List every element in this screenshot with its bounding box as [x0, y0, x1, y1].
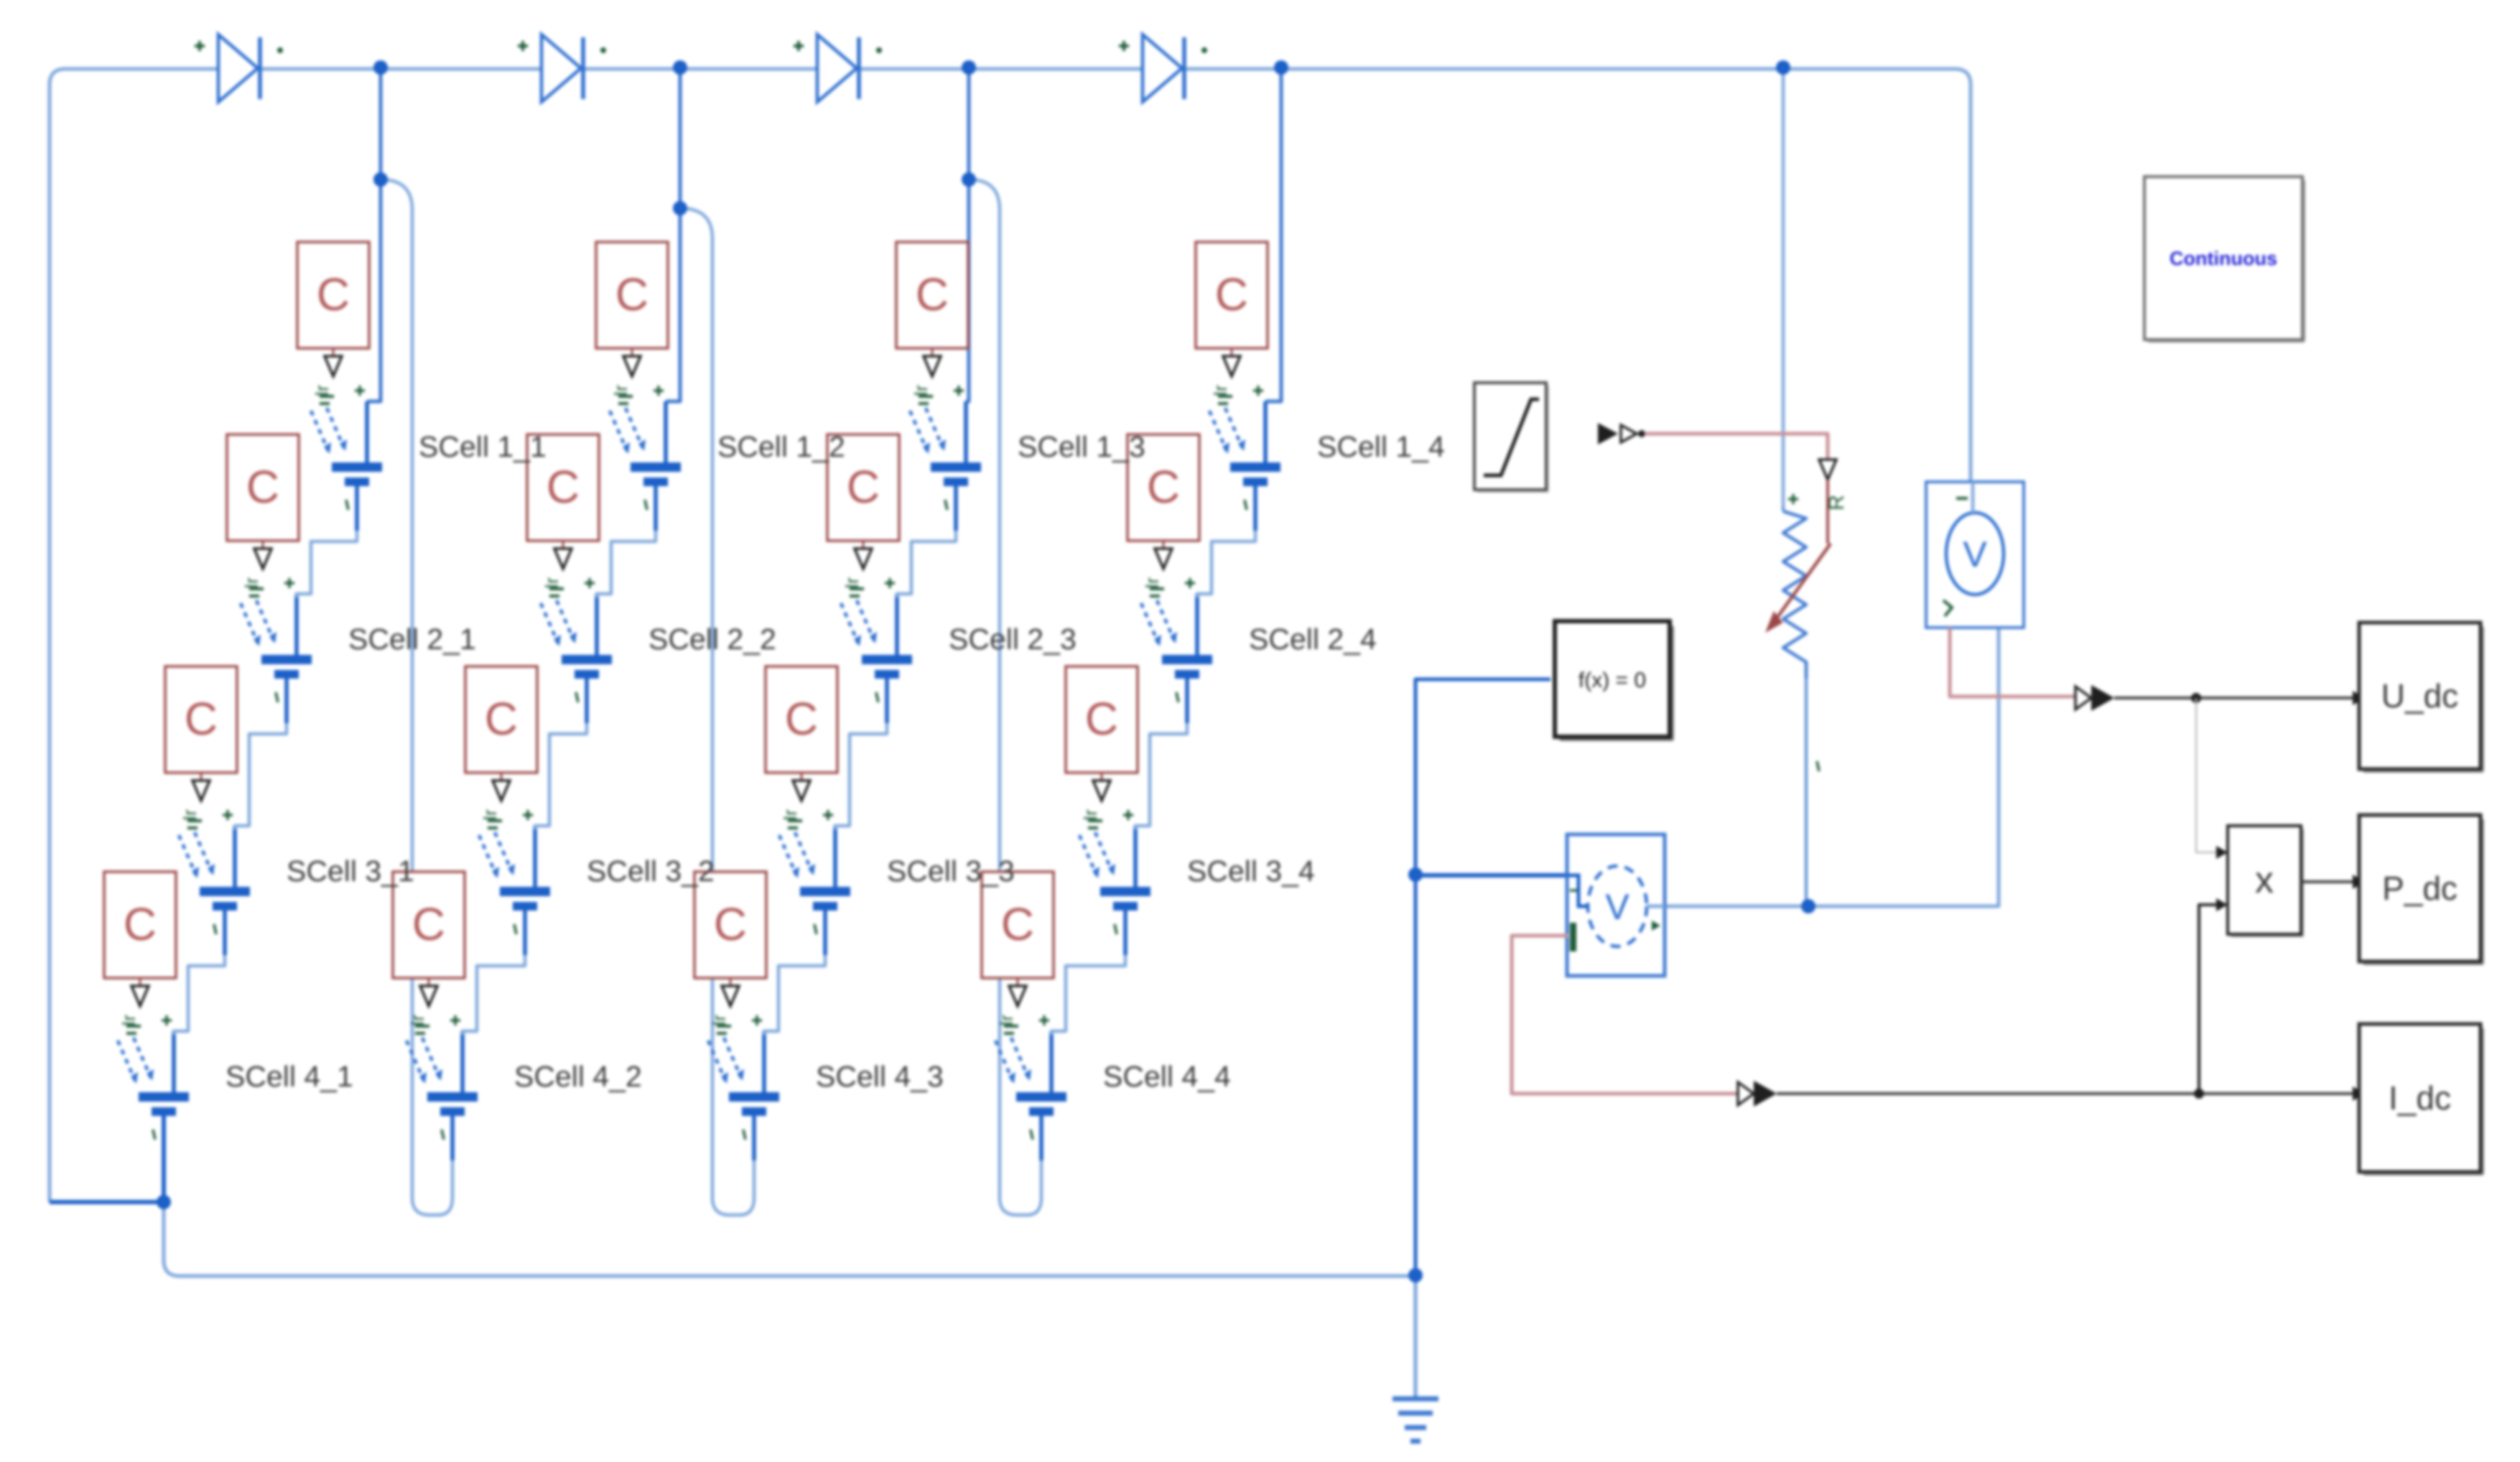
diode D4 - polarity mark — [1201, 47, 1207, 53]
svg-text:C: C — [714, 898, 747, 950]
svg-text:Ir: Ir — [708, 1015, 730, 1026]
positive terminal mark of SCell 3_4 — [1123, 810, 1133, 820]
wire current sensor I output to I_dc port glyph — [1512, 936, 1738, 1094]
negative terminal mark of SCell 4_2 — [442, 1130, 444, 1140]
diode D4 bypass — [1143, 34, 1184, 102]
node J2 — [673, 60, 687, 75]
node J4 — [1274, 60, 1288, 75]
node J1 lower — [373, 172, 388, 187]
wire junction J2 drop to SCell 1_2 positive terminal — [666, 208, 680, 401]
constant block C for SCell 1_1 — [297, 242, 369, 348]
svg-text:C: C — [785, 693, 818, 745]
solar cell symbol SCell 1_2 — [610, 401, 681, 531]
solar cell symbol SCell 2_4 — [1141, 594, 1212, 723]
arrowhead into U_dc — [2353, 691, 2365, 705]
solar cell symbol SCell 4_3 — [708, 1031, 779, 1160]
arrowhead into I_dc — [2353, 1086, 2365, 1101]
irradiance port Ir of SCell 1_2 — [610, 385, 633, 404]
svg-text:C: C — [1215, 269, 1248, 320]
positive terminal mark of SCell 1_1 — [355, 386, 365, 396]
negative terminal mark of SCell 2_2 — [576, 692, 578, 702]
irradiance port Ir of SCell 1_4 — [1209, 385, 1232, 404]
positive terminal mark of SCell 1_4 — [1253, 386, 1263, 396]
negative terminal mark of SCell 4_3 — [743, 1130, 745, 1140]
signal wire to U_dc outport — [2114, 697, 2353, 699]
svg-text:SCell 2_1: SCell 2_1 — [348, 623, 476, 656]
solar cell symbol SCell 3_2 — [479, 826, 550, 955]
svg-text:R: R — [1825, 495, 1849, 511]
svg-text:SCell 3_1: SCell 3_1 — [287, 855, 414, 888]
PS converter arrow below C block of SCell 4_4 — [1009, 978, 1026, 1006]
node J3 lower — [962, 172, 976, 187]
negative terminal mark of SCell 3_2 — [514, 924, 516, 934]
constant block C for SCell 4_1 — [104, 872, 176, 978]
svg-text:C: C — [1001, 898, 1034, 950]
wire junction J3 vertical stub — [967, 67, 971, 180]
wire variable resistor bottom lead — [1782, 503, 1785, 511]
wire column1 riser lower part and bottom return bus — [164, 1202, 1415, 1276]
svg-text:x: x — [2255, 860, 2274, 901]
wire junction J3 drop to SCell 1_3 positive terminal — [966, 180, 969, 401]
PS converter arrow below C block of SCell 1_2 — [623, 348, 641, 376]
PS converter arrow below C block of SCell 4_1 — [131, 978, 149, 1006]
diode D3 bypass — [817, 34, 859, 102]
negative terminal mark of SCell 3_1 — [214, 924, 216, 934]
svg-text:Ir: Ir — [241, 577, 262, 589]
svg-text:Ir: Ir — [179, 809, 200, 821]
negative terminal mark of SCell 1_1 — [346, 500, 348, 510]
wire junction J2 vertical stub — [679, 67, 682, 208]
wire saturation output to variable resistor control port — [1645, 434, 1828, 458]
wire SCell 2_2 negative to SCell 3_2 positive — [535, 723, 587, 829]
node ground branch — [1408, 1268, 1423, 1282]
variable resistor R zigzag — [1783, 511, 1806, 679]
wire SCell 3_4 negative to SCell 4_4 positive — [1051, 955, 1125, 1035]
solar cell symbol SCell 3_1 — [179, 826, 250, 955]
constant block C for SCell 2_3 — [827, 434, 899, 541]
negative terminal mark of SCell 3_3 — [814, 924, 817, 934]
irradiance port Ir of SCell 3_2 — [479, 809, 502, 828]
svg-text:SCell 4_1: SCell 4_1 — [226, 1060, 353, 1093]
wire SCell 1_1 negative to SCell 2_1 positive — [297, 531, 357, 597]
irradiance port Ir of SCell 2_4 — [1141, 577, 1164, 596]
signal tap from I_dc wire up to product input 2 — [2199, 905, 2216, 1094]
svg-text:V: V — [1605, 887, 1629, 927]
negative terminal mark of SCell 2_3 — [876, 692, 878, 702]
algebraic constraint block f(x)=0 — [1555, 621, 1674, 741]
constant block C for SCell 3_1 — [165, 666, 237, 773]
wire control arrow to resistor wiper — [1826, 480, 1829, 544]
wire junction J4 vertical stub — [1280, 67, 1283, 180]
svg-text:Ir: Ir — [910, 385, 931, 396]
wire SCell 3_2 negative to SCell 4_2 positive — [462, 955, 525, 1035]
irradiance port Ir of SCell 4_1 — [118, 1015, 141, 1033]
svg-text:SCell 3_4: SCell 3_4 — [1187, 855, 1315, 888]
negative terminal mark of SCell 2_4 — [1176, 692, 1178, 702]
constant block C for SCell 3_3 — [766, 666, 837, 773]
solar cell symbol SCell 2_2 — [541, 594, 612, 723]
irradiance port Ir of SCell 2_1 — [241, 577, 264, 596]
wire junction J1 vertical stub — [379, 67, 383, 180]
svg-text:C: C — [547, 461, 580, 513]
svg-text:C: C — [1085, 693, 1118, 745]
signal tap from U_dc wire down to product input 1 — [2196, 698, 2216, 852]
positive terminal mark of SCell 2_1 — [284, 578, 294, 588]
wire R bottom lead to measure bus — [1805, 666, 1808, 904]
irradiance port Ir of SCell 4_4 — [995, 1015, 1018, 1033]
positive terminal mark of SCell 4_3 — [752, 1015, 762, 1025]
PS arrow into variable resistor control — [1819, 460, 1836, 480]
positive terminal mark of SCell 3_1 — [223, 810, 233, 820]
solar cell symbol SCell 4_4 — [995, 1031, 1066, 1160]
node J5 to load branch — [1776, 60, 1790, 75]
solar cell symbol SCell 4_2 — [406, 1031, 478, 1160]
diode D2 + polarity mark — [518, 41, 528, 51]
svg-text:Ir: Ir — [1209, 385, 1231, 396]
current measurement block I — [1567, 834, 1665, 976]
solar cell symbol SCell 2_3 — [841, 594, 912, 723]
svg-text:Ir: Ir — [311, 385, 333, 396]
constant block C for SCell 4_4 — [982, 872, 1054, 978]
wire SCell 2_4 negative to SCell 3_4 positive — [1135, 723, 1187, 829]
irradiance port Ir of SCell 2_3 — [841, 577, 864, 596]
wire top bus from top-left corner to top-right corner — [50, 69, 1971, 1202]
PS converter arrow below C block of SCell 3_1 — [192, 773, 210, 801]
wire junction J1 drop to SCell 1_1 positive terminal — [367, 180, 381, 401]
PS converter arrow below C block of SCell 2_1 — [254, 541, 271, 569]
PS converter arrow below C block of SCell 1_4 — [1223, 348, 1240, 376]
PS converter arrow below C block of SCell 3_4 — [1093, 773, 1110, 801]
node on I_dc wire — [2194, 1089, 2204, 1099]
svg-text:SCell 4_4: SCell 4_4 — [1103, 1060, 1231, 1093]
svg-text:Ir: Ir — [118, 1015, 139, 1026]
negative terminal mark of SCell 1_4 — [1245, 500, 1247, 510]
wire bypass bus from J2 down to SCell 4_3 negative terminal — [680, 208, 754, 1215]
svg-text:SCell 4_3: SCell 4_3 — [816, 1060, 944, 1093]
powergui Continuous block — [2144, 177, 2305, 343]
positive terminal mark of SCell 2_3 — [885, 578, 895, 588]
irradiance port Ir of SCell 1_1 — [311, 385, 334, 404]
svg-text:P_dc: P_dc — [2382, 870, 2458, 907]
wire column1 bottom riser — [162, 1113, 166, 1206]
output port glyph of saturation block — [1598, 423, 1645, 444]
svg-text:C: C — [485, 693, 518, 745]
PS converter arrow below C block of SCell 1_1 — [325, 348, 342, 376]
positive terminal mark of SCell 4_2 — [450, 1015, 460, 1025]
diode D2 bypass — [541, 34, 583, 102]
wire junction J4 drop to SCell 1_4 positive terminal — [1265, 180, 1281, 401]
positive terminal mark of SCell 2_2 — [585, 578, 595, 588]
svg-text:I_dc: I_dc — [2389, 1079, 2451, 1117]
wire SCell 1_4 negative to SCell 2_4 positive — [1197, 531, 1255, 597]
solar cell symbol SCell 1_3 — [910, 401, 981, 531]
irradiance port Ir of SCell 4_3 — [708, 1015, 731, 1033]
svg-text:C: C — [916, 269, 949, 320]
positive terminal mark of SCell 4_4 — [1039, 1015, 1049, 1025]
diode D1 bypass — [218, 34, 260, 102]
variable resistor + mark — [1788, 494, 1798, 504]
wire SCell 2_1 negative to SCell 3_1 positive — [235, 723, 287, 829]
solar cell symbol SCell 2_1 — [241, 594, 312, 723]
PS converter arrow below C block of SCell 2_2 — [554, 541, 572, 569]
svg-text:C: C — [847, 461, 880, 513]
wire current sensor output to R bottom node and voltage sensor return — [1662, 595, 1999, 906]
irradiance port Ir of SCell 1_3 — [910, 385, 933, 404]
PS converter arrow below C block of SCell 1_3 — [924, 348, 941, 376]
svg-text:SCell 2_3: SCell 2_3 — [949, 623, 1077, 656]
saturation block — [1474, 383, 1549, 493]
svg-text:SCell 4_2: SCell 4_2 — [514, 1060, 642, 1093]
svg-text:U_dc: U_dc — [2381, 677, 2458, 714]
wire SCell 2_3 negative to SCell 3_3 positive — [835, 723, 887, 829]
positive terminal mark of SCell 3_3 — [823, 810, 833, 820]
diode D1 - polarity mark — [277, 47, 283, 53]
svg-text:SCell 1_4: SCell 1_4 — [1317, 430, 1445, 463]
svg-text:SCell 2_2: SCell 2_2 — [648, 623, 776, 656]
svg-text:SCell 1_3: SCell 1_3 — [1018, 430, 1145, 463]
irradiance port Ir of SCell 2_2 — [541, 577, 564, 596]
svg-text:Ir: Ir — [1079, 809, 1101, 821]
wire bypass bus from J1 down to SCell 4_2 negative terminal — [381, 180, 452, 1215]
constant block C for SCell 3_2 — [465, 666, 537, 773]
outport block U_dc — [2359, 623, 2484, 773]
svg-text:f(x) = 0: f(x) = 0 — [1579, 669, 1646, 692]
positive terminal mark of SCell 3_2 — [523, 810, 533, 820]
svg-text:C: C — [412, 898, 445, 950]
node J3 — [962, 60, 976, 75]
solar cell symbol SCell 3_4 — [1079, 826, 1150, 955]
constant block C for SCell 4_2 — [393, 872, 465, 978]
PS converter arrow below C block of SCell 4_2 — [420, 978, 437, 1006]
svg-text:Ir: Ir — [841, 577, 863, 589]
svg-text:Ir: Ir — [610, 385, 631, 396]
svg-text:C: C — [246, 461, 279, 513]
wire product output to P_dc — [2301, 880, 2353, 883]
svg-text:V: V — [1963, 534, 1987, 574]
negative terminal mark of SCell 4_1 — [153, 1130, 155, 1140]
positive terminal mark of SCell 2_4 — [1185, 578, 1195, 588]
negative terminal mark of SCell 2_1 — [276, 692, 278, 702]
signal port glyph to U_dc — [2075, 685, 2114, 711]
constant block C for SCell 1_4 — [1196, 242, 1268, 348]
svg-text:Continuous: Continuous — [2170, 248, 2277, 269]
svg-text:Ir: Ir — [479, 809, 501, 821]
outport block I_dc — [2359, 1024, 2484, 1175]
negative terminal mark of SCell 1_2 — [645, 500, 647, 510]
svg-text:SCell 3_3: SCell 3_3 — [887, 855, 1015, 888]
diode D3 + polarity mark — [794, 41, 804, 51]
svg-text:SCell 1_2: SCell 1_2 — [717, 430, 845, 463]
positive terminal mark of SCell 1_2 — [654, 386, 664, 396]
svg-text:C: C — [124, 898, 157, 950]
node R bottom on measure bus — [1801, 899, 1815, 913]
PS converter arrow below C block of SCell 2_3 — [855, 541, 872, 569]
svg-text:C: C — [185, 693, 218, 745]
ground symbol — [1392, 1275, 1438, 1441]
svg-text:Ir: Ir — [779, 809, 801, 821]
negative terminal mark of SCell 3_4 — [1115, 924, 1117, 934]
constant block C for SCell 4_3 — [694, 872, 766, 978]
node current sensor branch — [1408, 867, 1423, 882]
constant block C for SCell 2_4 — [1128, 434, 1199, 541]
wire left-edge to column1 bottom junction — [50, 1200, 161, 1204]
solar cell symbol SCell 1_4 — [1209, 401, 1280, 531]
constant block C for SCell 1_2 — [596, 242, 668, 348]
wire SCell 3_1 negative to SCell 4_1 positive — [174, 955, 225, 1035]
svg-text:SCell 3_2: SCell 3_2 — [587, 855, 715, 888]
diode D4 + polarity mark — [1119, 41, 1129, 51]
irradiance port Ir of SCell 3_4 — [1079, 809, 1102, 828]
negative terminal mark of SCell 4_4 — [1031, 1130, 1033, 1140]
product block x — [2228, 826, 2304, 937]
negative terminal mark of SCell 1_3 — [945, 500, 947, 510]
irradiance port Ir of SCell 3_1 — [179, 809, 202, 828]
node J1 — [373, 60, 388, 75]
irradiance port Ir of SCell 4_2 — [406, 1015, 429, 1033]
outport block P_dc — [2359, 815, 2484, 965]
wire SCell 1_3 negative to SCell 2_3 positive — [897, 531, 956, 597]
wire SCell 3_3 negative to SCell 4_3 positive — [764, 955, 825, 1035]
constant block C for SCell 2_1 — [227, 434, 299, 541]
node column1 bottom — [157, 1195, 171, 1209]
wire voltage sensor v output to U_dc port glyph — [1950, 628, 2075, 697]
constant block C for SCell 1_3 — [896, 242, 968, 348]
svg-text:C: C — [1147, 461, 1180, 513]
solar cell symbol SCell 3_3 — [779, 826, 850, 955]
svg-text:Ir: Ir — [541, 577, 562, 589]
variable resistor - mark — [1817, 761, 1819, 771]
svg-text:Ir: Ir — [995, 1015, 1017, 1026]
irradiance port Ir of SCell 3_3 — [779, 809, 802, 828]
positive terminal mark of SCell 1_3 — [954, 386, 964, 396]
PS converter arrow below C block of SCell 3_2 — [493, 773, 510, 801]
variable resistor wiper arrow — [1766, 544, 1831, 632]
svg-text:Ir: Ir — [406, 1015, 428, 1026]
svg-text:SCell 2_4: SCell 2_4 — [1249, 623, 1377, 656]
PS converter arrow below C block of SCell 3_3 — [793, 773, 810, 801]
diode D2 - polarity mark — [600, 47, 606, 53]
wire bypass bus from J3 down to SCell 4_4 negative terminal — [969, 180, 1041, 1215]
svg-text:C: C — [317, 269, 350, 320]
PS converter arrow below C block of SCell 4_3 — [722, 978, 739, 1006]
solar cell symbol SCell 1_1 — [311, 401, 382, 531]
wire SCell 1_2 negative to SCell 2_2 positive — [597, 531, 656, 597]
wire from algebraic constraint f(x)=0 to ground node vertical — [1415, 679, 1550, 1399]
svg-text:Ir: Ir — [1141, 577, 1163, 589]
constant block C for SCell 3_4 — [1066, 666, 1138, 773]
voltage measurement block V — [1926, 482, 2024, 628]
wire from J5 node down to variable resistor + — [1782, 67, 1785, 506]
node on U_dc wire — [2191, 693, 2201, 703]
node J2 lower — [673, 201, 687, 215]
signal port glyph to I_dc — [1738, 1081, 1777, 1107]
diode D1 + polarity mark — [195, 41, 205, 51]
constant block C for SCell 2_2 — [527, 434, 599, 541]
svg-text:SCell 1_1: SCell 1_1 — [419, 430, 547, 463]
signal wire to I_dc outport — [1777, 1092, 2353, 1095]
solar cell symbol SCell 4_1 — [118, 1031, 189, 1160]
positive terminal mark of SCell 4_1 — [162, 1015, 172, 1025]
diode D3 - polarity mark — [876, 47, 882, 53]
svg-text:C: C — [615, 269, 648, 320]
PS converter arrow below C block of SCell 2_4 — [1155, 541, 1172, 569]
wire node to current sensor input — [1415, 873, 1567, 877]
